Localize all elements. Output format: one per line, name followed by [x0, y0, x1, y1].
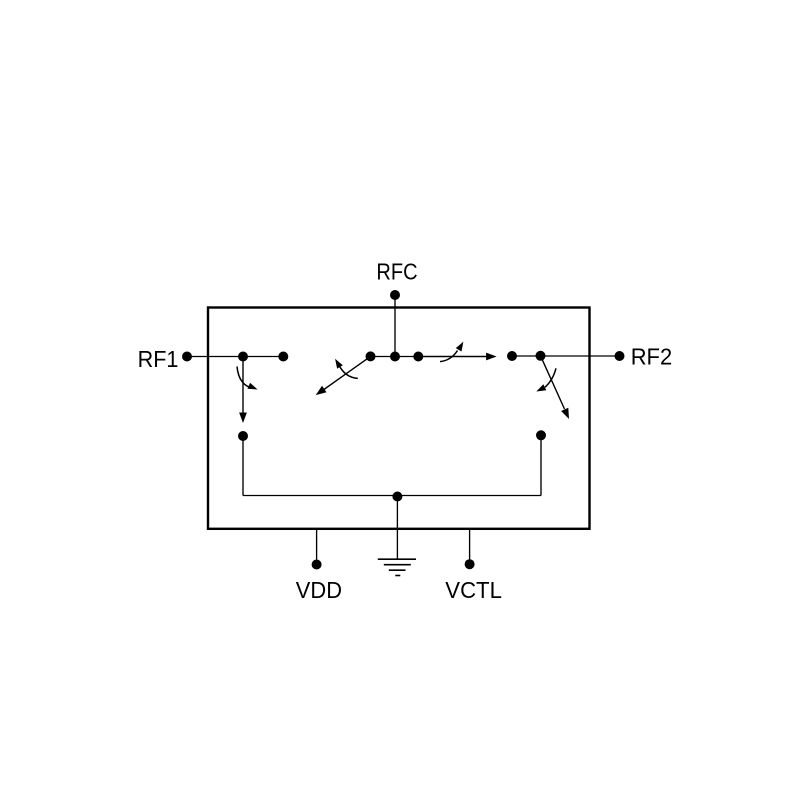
- node dot right shunt junction: [536, 351, 546, 361]
- ground symbol: [378, 559, 416, 575]
- wire RF1 to node: [187, 356, 283, 358]
- RF2 port dot: [615, 351, 625, 361]
- switch SW3 right series arm (closed, arrow): [418, 353, 496, 361]
- wire VCTL pin: [469, 529, 471, 564]
- SW1 motion arc: [237, 367, 258, 390]
- svg-text:VDD: VDD: [296, 577, 342, 603]
- VCTL pin dot: [465, 559, 475, 569]
- switch SW1 left shunt arm (closed): [239, 357, 247, 424]
- wire bottom rail: [243, 495, 541, 497]
- device outline box: [208, 308, 590, 529]
- switch SW4 right shunt arm (open): [541, 356, 570, 419]
- node dot right series contact: [507, 351, 517, 361]
- svg-text:RFC: RFC: [376, 259, 417, 285]
- RF1 port dot: [182, 352, 192, 362]
- svg-text:RF2: RF2: [631, 344, 673, 370]
- svg-text:RF1: RF1: [138, 346, 179, 372]
- VDD pin dot: [312, 560, 322, 570]
- node dot left shunt lower: [238, 431, 248, 441]
- node dot RFC junction: [390, 352, 400, 362]
- wire right shunt to rail: [540, 435, 542, 495]
- SW4 motion arc: [536, 368, 556, 391]
- SW2 motion arc: [335, 359, 358, 379]
- wire RF2 to node: [512, 355, 620, 357]
- node dot left shunt junction: [238, 352, 248, 362]
- wire left shunt to rail: [242, 436, 244, 496]
- wire RFC pole bar: [371, 356, 419, 358]
- RFC port dot: [390, 290, 400, 300]
- node dot RFC left arm: [366, 351, 376, 361]
- wire rail to ground: [396, 497, 398, 560]
- svg-text:VCTL: VCTL: [445, 577, 502, 603]
- node dot left series contact: [278, 352, 288, 362]
- node dot right shunt lower: [536, 430, 546, 440]
- node dot rail center: [392, 492, 402, 502]
- node dot RFC right arm: [413, 352, 423, 362]
- wire RFC vertical: [394, 295, 396, 357]
- SW3 motion arc: [440, 342, 463, 362]
- switch SW2 left series arm (open): [316, 356, 371, 395]
- wire VDD pin: [316, 529, 318, 565]
